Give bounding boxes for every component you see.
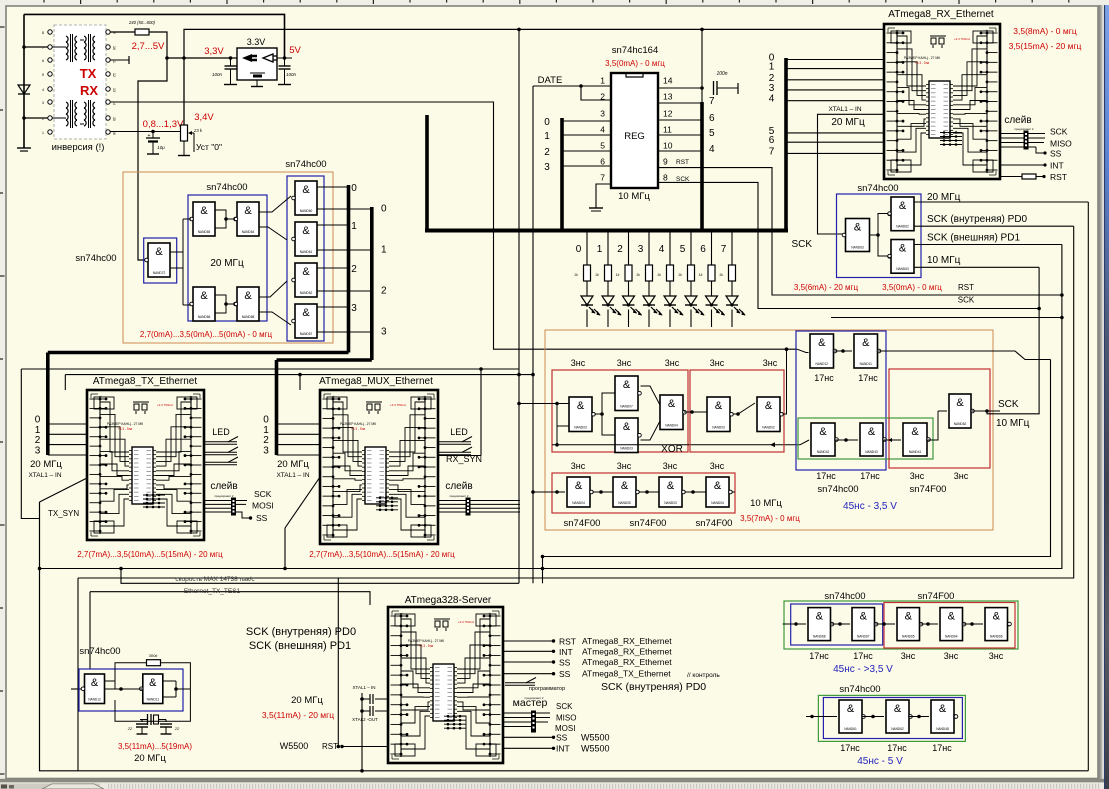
nand gate X2 [615,376,638,411]
svg-text:3.3V: 3.3V [247,37,266,47]
svg-text:3нс: 3нс [571,461,586,471]
nand gate Y2 [854,334,878,368]
svg-text:3нс: 3нс [763,358,778,368]
nand gate U7B [891,197,914,231]
svg-text:3: 3 [35,446,41,457]
terminal row3 [110,59,129,61]
svg-text:РАЗМЕР КАНЦ - 27 МК: РАЗМЕР КАНЦ - 27 МК [904,56,940,60]
svg-text:слейв: слейв [445,481,472,492]
svg-text:0,8...1,3V: 0,8...1,3V [143,119,184,130]
blue box osc pair [188,195,267,321]
wire h369 [21,368,519,370]
wire 20MHz out [914,201,1088,203]
RX SPI stub wires [1028,133,1045,135]
wire U4D to U5C [259,281,287,297]
long vertical v519 [518,29,520,583]
svg-text:NAND63: NAND63 [896,267,909,271]
svg-text:sn74F00: sn74F00 [696,518,733,529]
ground left input [17,147,31,149]
wire 10MHz out [914,266,1039,268]
svg-text:3: 3 [638,244,644,255]
xor B wiring [686,411,708,413]
wire v542 [542,557,544,584]
svg-text:SCK (внешняя) PD1: SCK (внешняя) PD1 [927,233,1020,244]
server right rows [503,640,553,642]
svg-text:20 МГц: 20 МГц [277,459,309,470]
wire TX winding links [80,39,84,41]
svg-text:W5500: W5500 [581,744,610,754]
node cap 10u tap [151,130,155,134]
svg-text:7: 7 [709,96,715,107]
blue box bottom-left [79,669,183,711]
svg-text:RST: RST [322,742,338,751]
svg-text:3,5(7mA) - 0 мгц: 3,5(7mA) - 0 мгц [740,514,800,523]
nand gate U5C [295,263,317,297]
svg-text:SCK: SCK [556,702,573,711]
svg-text:10 МГц: 10 МГц [996,418,1030,429]
blue box 17ns [796,331,886,470]
svg-text:5: 5 [680,244,686,255]
svg-text:MISO: MISO [1050,139,1072,149]
loop PD1 right [40,245,1062,569]
svg-text:+3.3 750mA: +3.3 750mA [157,403,173,407]
node dot v519 x 29 [517,28,521,32]
svg-text:&: & [200,290,208,302]
nand gate X9 [659,477,682,507]
loop 20MHz right [1087,202,1089,771]
nand gate U7C [891,240,914,274]
thick bus v703 [700,102,704,231]
nand gate U4B [237,202,259,236]
TX input rows [48,423,87,425]
svg-text:+: + [148,133,151,139]
svg-text:INT: INT [1050,161,1064,171]
svg-text:2: 2 [351,264,357,275]
svg-text:1k: 1k [595,273,599,277]
svg-text:SCK (внутреняя) PD0: SCK (внутреняя) PD0 [246,626,356,638]
bottom rail [40,502,1089,771]
svg-text:&: & [939,703,947,715]
svg-text:W5500: W5500 [581,733,610,743]
svg-text:&: & [302,307,310,319]
nand gate Y1 [810,334,834,368]
svg-text:Ethernet_TX_TES1: Ethernet_TX_TES1 [184,588,241,595]
wire pin row 6 [24,117,48,119]
svg-text:2,7(7mA)...3,5(10mA)...5(15mA): 2,7(7mA)...3,5(10mA)...5(15mA) - 20 мгц [309,550,455,559]
blue box single gate [144,238,177,283]
red box xor B [690,370,784,452]
svg-text:2,7(7mA)...3,5(10mA)...5(15mA): 2,7(7mA)...3,5(10mA)...5(15mA) - 20 мгц [77,550,223,559]
svg-text:1: 1 [544,131,550,142]
svg-text:&: & [816,611,824,623]
svg-text:4: 4 [709,144,715,155]
svg-text:слейв: слейв [210,481,237,492]
wire SCK long [658,182,1039,308]
svg-text:&: & [715,400,723,412]
nand gate Y5 [903,423,927,456]
svg-text:NAND04: NAND04 [711,501,724,505]
svg-text:sn74hc00: sn74hc00 [857,183,898,194]
diode D1 [18,85,30,94]
svg-text:&: & [819,426,827,438]
svg-text:8: 8 [663,173,668,183]
svg-text:6: 6 [769,135,775,146]
transformer TR4 [84,102,86,108]
svg-text:7: 7 [721,244,727,255]
svg-text:NAND12: NAND12 [88,698,101,702]
wire XTAL feed RX [818,114,885,234]
svg-text:sn74hc164: sn74hc164 [612,45,658,56]
svg-text:45нс - 5 V: 45нс - 5 V [857,756,903,767]
wire bottom row to pot [110,131,180,133]
svg-text:10: 10 [112,46,116,50]
node dot cap100n tap [700,28,704,32]
svg-text:XTAL1 – IN: XTAL1 – IN [28,472,61,479]
svg-text:0: 0 [576,244,582,255]
svg-text:NAND66: NAND66 [990,635,1003,639]
bottom osc wiring [105,688,143,690]
svg-text:+3.3 750mA: +3.3 750mA [390,403,406,407]
svg-text:предохранит 2: предохранит 2 [1015,127,1034,131]
svg-text:TX_SYN: TX_SYN [48,509,79,518]
nand gate A3 [897,608,920,641]
mid chain wiring [770,442,775,447]
LED branch 4 [669,231,671,266]
svg-text:2,7(0mA)...3,5(0mA)...5(0mA) -: 2,7(0mA)...3,5(0mA)...5(0mA) - 0 мгц [140,330,273,339]
node third net [1060,316,1064,320]
svg-text:ATmega328-Server: ATmega328-Server [405,595,492,606]
capacitor C5 [141,720,143,723]
blue box chain A [791,604,883,645]
svg-text:DATE: DATE [538,75,563,86]
bus thick L2 [370,207,374,360]
svg-text:&: & [667,480,675,492]
svg-text:20 МГц: 20 МГц [134,753,166,764]
wire RX long net [110,102,797,349]
svg-text:INT: INT [556,744,570,754]
wire 3.3V to regulator [167,57,237,59]
svg-text:2: 2 [381,286,387,297]
MUX input rows [277,423,321,425]
svg-text:3нс: 3нс [989,651,1004,661]
xor A lower rail [556,426,558,445]
wire U4B fork [259,227,287,240]
svg-text:+3.3 - 5па: +3.3 - 5па [419,644,434,648]
svg-text:RX: RX [80,83,98,98]
svg-text:&: & [714,480,722,492]
wire MUX syn diagonal [285,477,320,569]
wire v21 TX_SYN [21,369,39,519]
svg-text:SS: SS [559,658,571,668]
thick bus v562 [560,118,564,231]
svg-text:SCK (внутреняя) PD0: SCK (внутреняя) PD0 [601,681,706,693]
svg-text:sn74hc00: sn74hc00 [817,484,858,495]
xor A wiring [519,403,569,405]
svg-text:5: 5 [42,73,44,77]
wire into Y1 [783,349,787,414]
svg-text:1: 1 [769,62,775,73]
wire TX syn diagonal [40,478,88,502]
svg-text:3,5(6mA) - 20 мгц: 3,5(6mA) - 20 мгц [794,283,859,292]
svg-text:NAND68: NAND68 [813,635,826,639]
svg-text:+3.3 - 5па: +3.3 - 5па [915,61,930,65]
svg-text:ATmega8_TX_Ethernet: ATmega8_TX_Ethernet [93,376,198,387]
svg-text:XTAL1 – IN: XTAL1 – IN [353,685,376,690]
svg-text:NAND48: NAND48 [936,727,949,731]
wire DATE net [533,85,611,87]
svg-text:MISO: MISO [556,714,576,723]
svg-text:sn74F00: sn74F00 [564,518,601,529]
svg-text:17нс: 17нс [887,743,907,753]
node 3.3V tap [182,56,186,60]
svg-text:sn74hc00: sn74hc00 [206,182,247,193]
blue box driver quad [287,176,324,341]
svg-text:3нс: 3нс [663,461,678,471]
svg-text:NAND65: NAND65 [198,230,211,234]
block ATmega8_RX_Ethernet [884,24,1000,179]
nand gate U5B [295,222,317,256]
svg-text:RST: RST [676,159,689,166]
svg-text:22: 22 [174,726,180,731]
svg-text:ATmega8_MUX_Ethernet: ATmega8_MUX_Ethernet [319,376,433,387]
chain A wiring [783,623,806,625]
orange box osc cluster [123,172,333,343]
svg-text:22: 22 [127,726,133,731]
svg-text:ATmega8_RX_Ethernet: ATmega8_RX_Ethernet [582,646,672,656]
svg-text:&: & [765,400,773,412]
svg-text:17нс: 17нс [853,651,873,661]
svg-text:3: 3 [600,109,605,119]
svg-text:NAND62: NAND62 [891,727,904,731]
svg-text:0: 0 [544,117,550,128]
bottom tab [0,784,100,789]
svg-text:XTAL1 – IN: XTAL1 – IN [828,106,861,113]
svg-text:1k: 1k [699,273,703,277]
capacitor C1 100n [230,58,232,66]
node rst net [1060,293,1064,297]
svg-text:100n: 100n [286,72,297,77]
svg-text:NAND41: NAND41 [909,450,922,454]
svg-text:&: & [91,677,99,689]
svg-text:XTAL1 – IN: XTAL1 – IN [276,472,309,479]
transformer TR1 [66,36,68,42]
svg-text:3: 3 [263,446,269,457]
svg-text:NAND02: NAND02 [762,426,775,430]
wire sck fork [870,214,890,236]
svg-text:3,5(0mA) - 0 мгц: 3,5(0mA) - 0 мгц [882,283,942,292]
RX input rows [786,59,884,61]
svg-text:1k: 1k [719,273,723,277]
svg-text:NAND04: NAND04 [572,501,585,505]
nand gate X10 [706,477,729,507]
svg-text:3нс: 3нс [710,461,725,471]
svg-text:LED: LED [450,427,468,437]
svg-text:NAND72: NAND72 [153,271,166,275]
svg-text:1: 1 [381,245,387,256]
battery symbol inside regulator [250,72,265,74]
svg-text:1k: 1k [678,273,682,277]
svg-text:&: & [621,480,629,492]
svg-text:NAND62: NAND62 [300,291,313,295]
wire h591 [90,592,370,605]
svg-text:20 МГц: 20 МГц [30,459,62,470]
svg-text:&: & [948,611,956,623]
LED branch 5 [690,231,692,266]
transformer TR3 [66,102,68,108]
resistor R3 top [147,660,161,666]
nand gate Z1 [85,674,105,704]
svg-text:ATmega8_RX_Ethernet: ATmega8_RX_Ethernet [888,9,994,20]
programmer arrow [505,682,535,684]
svg-text:3нс: 3нс [571,358,586,368]
nand gate Y6 [949,394,971,428]
nand gate X6 [757,397,780,432]
svg-text:предохранит 2: предохранит 2 [215,494,234,498]
svg-text:3нс: 3нс [710,358,725,368]
wire 3.3V mid rail [184,29,884,125]
transformer TR2 [84,36,86,42]
green box chain A [784,601,1018,649]
svg-text:+3.3 750mA: +3.3 750mA [458,620,474,624]
svg-text:2,7...5V: 2,7...5V [132,41,165,52]
svg-text:&: & [668,398,676,410]
svg-text:слейв: слейв [1004,115,1031,126]
svg-text:0: 0 [381,204,387,215]
svg-text:1: 1 [351,221,357,232]
svg-text:SCK: SCK [1050,127,1068,137]
red box xor A [552,370,688,452]
svg-text:&: & [868,426,876,438]
svg-text:ATmega8_RX_Ethernet: ATmega8_RX_Ethernet [582,636,672,646]
loop mid right [543,360,1051,557]
node sck net [1037,307,1041,311]
svg-text:1k: 1k [657,273,661,277]
wire v121 link [121,569,519,584]
svg-text:45нс - >3,5 V: 45нс - >3,5 V [833,664,893,675]
wire MUX frame drop [299,375,301,390]
LED branch 7 [731,231,733,266]
LED branch 3 [648,231,650,266]
nand gate U5D [295,304,317,338]
transformer module dashed box [54,25,106,139]
svg-text:NAND03: NAND03 [574,426,587,430]
svg-text:программатор: программатор [529,686,565,692]
bus stubs col2 [317,208,372,210]
red box D [889,369,990,468]
svg-text:W5500: W5500 [280,741,309,751]
svg-text:&: & [818,337,826,349]
wire v338 [337,578,339,747]
svg-text:&: & [899,200,907,212]
svg-text:РАЗМЕР КАНЦ - 27 МК: РАЗМЕР КАНЦ - 27 МК [107,422,143,426]
svg-text:2: 2 [263,435,269,446]
wire v481 [480,369,482,456]
delay C wiring [533,491,565,493]
svg-text:&: & [862,337,870,349]
svg-text:SCK: SCK [998,399,1019,410]
svg-text:инверсия (!): инверсия (!) [52,142,105,153]
nand gate A2 [852,608,875,641]
svg-text:5V: 5V [289,45,301,56]
wire U3A outputs [170,251,184,253]
LED arrows MUX [438,441,471,443]
wire input bottom-left gate [71,688,84,690]
svg-text:Уст "0": Уст "0" [196,142,222,152]
svg-text:&: & [302,225,310,237]
nand gate U3A [148,243,170,277]
svg-text:2: 2 [617,244,623,255]
xor A gate links [595,393,616,414]
module right pins [106,30,110,34]
svg-text:17нс: 17нс [814,373,834,383]
svg-text:3нс: 3нс [954,471,969,481]
svg-text:9: 9 [663,157,668,167]
nand gate X7 [567,477,590,507]
svg-text:14: 14 [663,76,673,86]
svg-text:7: 7 [600,173,605,183]
svg-text:NAND62: NAND62 [896,225,909,229]
LED branch 2 [628,231,630,266]
nand gate Z2 [143,674,163,704]
svg-text:&: & [860,611,868,623]
svg-text:RST: RST [1050,172,1067,182]
node R1-3.3V junction [165,56,169,60]
nand gate A4 [940,608,963,641]
node A [22,45,26,49]
svg-text:предохранит 2: предохранит 2 [525,696,544,700]
svg-text:240 (50...800): 240 (50...800) [128,20,156,25]
svg-text:NAND03: NAND03 [712,426,725,430]
svg-text:+3.3 750mA: +3.3 750mA [954,37,970,41]
green box chain B [818,695,965,741]
svg-text:12: 12 [112,73,116,77]
wire U4B to U5A [259,196,291,212]
svg-text:2: 2 [544,147,550,158]
wire U4D to U5D [259,312,291,325]
wire 5V top rail [24,14,285,58]
regulator ground [256,80,258,86]
wire sck out node [971,410,1000,412]
svg-text:sn74hc00: sn74hc00 [824,591,865,602]
svg-text:NAND63: NAND63 [851,246,864,250]
svg-text:12: 12 [663,109,673,119]
svg-text:6: 6 [42,59,44,63]
svg-text:20 МГц: 20 МГц [927,192,961,203]
wire xor chain link [684,411,688,413]
wire SCK PD0 out [914,225,1074,227]
svg-text:4: 4 [659,244,665,255]
svg-text:NAND43: NAND43 [865,450,878,454]
nand gate X8 [613,477,636,507]
wire DATE drop [532,86,534,583]
svg-text:6: 6 [709,113,715,124]
nand gate U7A [846,219,870,252]
svg-text:NAND61: NAND61 [844,727,857,731]
svg-text:sn74F00: sn74F00 [630,518,667,529]
svg-text:RST: RST [958,283,974,292]
crystal Q1 [147,714,149,725]
block ATmega328-Server [388,607,503,763]
svg-text:3: 3 [769,83,775,94]
svg-text:17нс: 17нс [858,373,878,383]
svg-text:+3.3 - 5па: +3.3 - 5па [118,427,133,431]
svg-text:TX: TX [80,66,97,81]
svg-text:&: & [200,205,208,217]
svg-text:&: & [155,246,163,258]
svg-text:NAND64: NAND64 [242,230,255,234]
svg-text:3,5(0mA) - 0 мгц: 3,5(0mA) - 0 мгц [605,59,665,68]
svg-text:20 МГц: 20 МГц [210,258,244,269]
